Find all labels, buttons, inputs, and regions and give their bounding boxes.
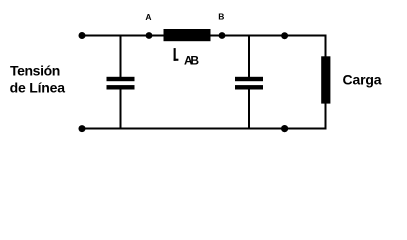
- svg-text:Tensión: Tensión: [10, 63, 60, 79]
- svg-text:AB: AB: [184, 54, 199, 68]
- svg-text:Carga: Carga: [343, 72, 382, 88]
- svg-text:de Línea: de Línea: [10, 80, 66, 96]
- svg-text:A: A: [145, 12, 151, 22]
- svg-text:B: B: [218, 12, 224, 22]
